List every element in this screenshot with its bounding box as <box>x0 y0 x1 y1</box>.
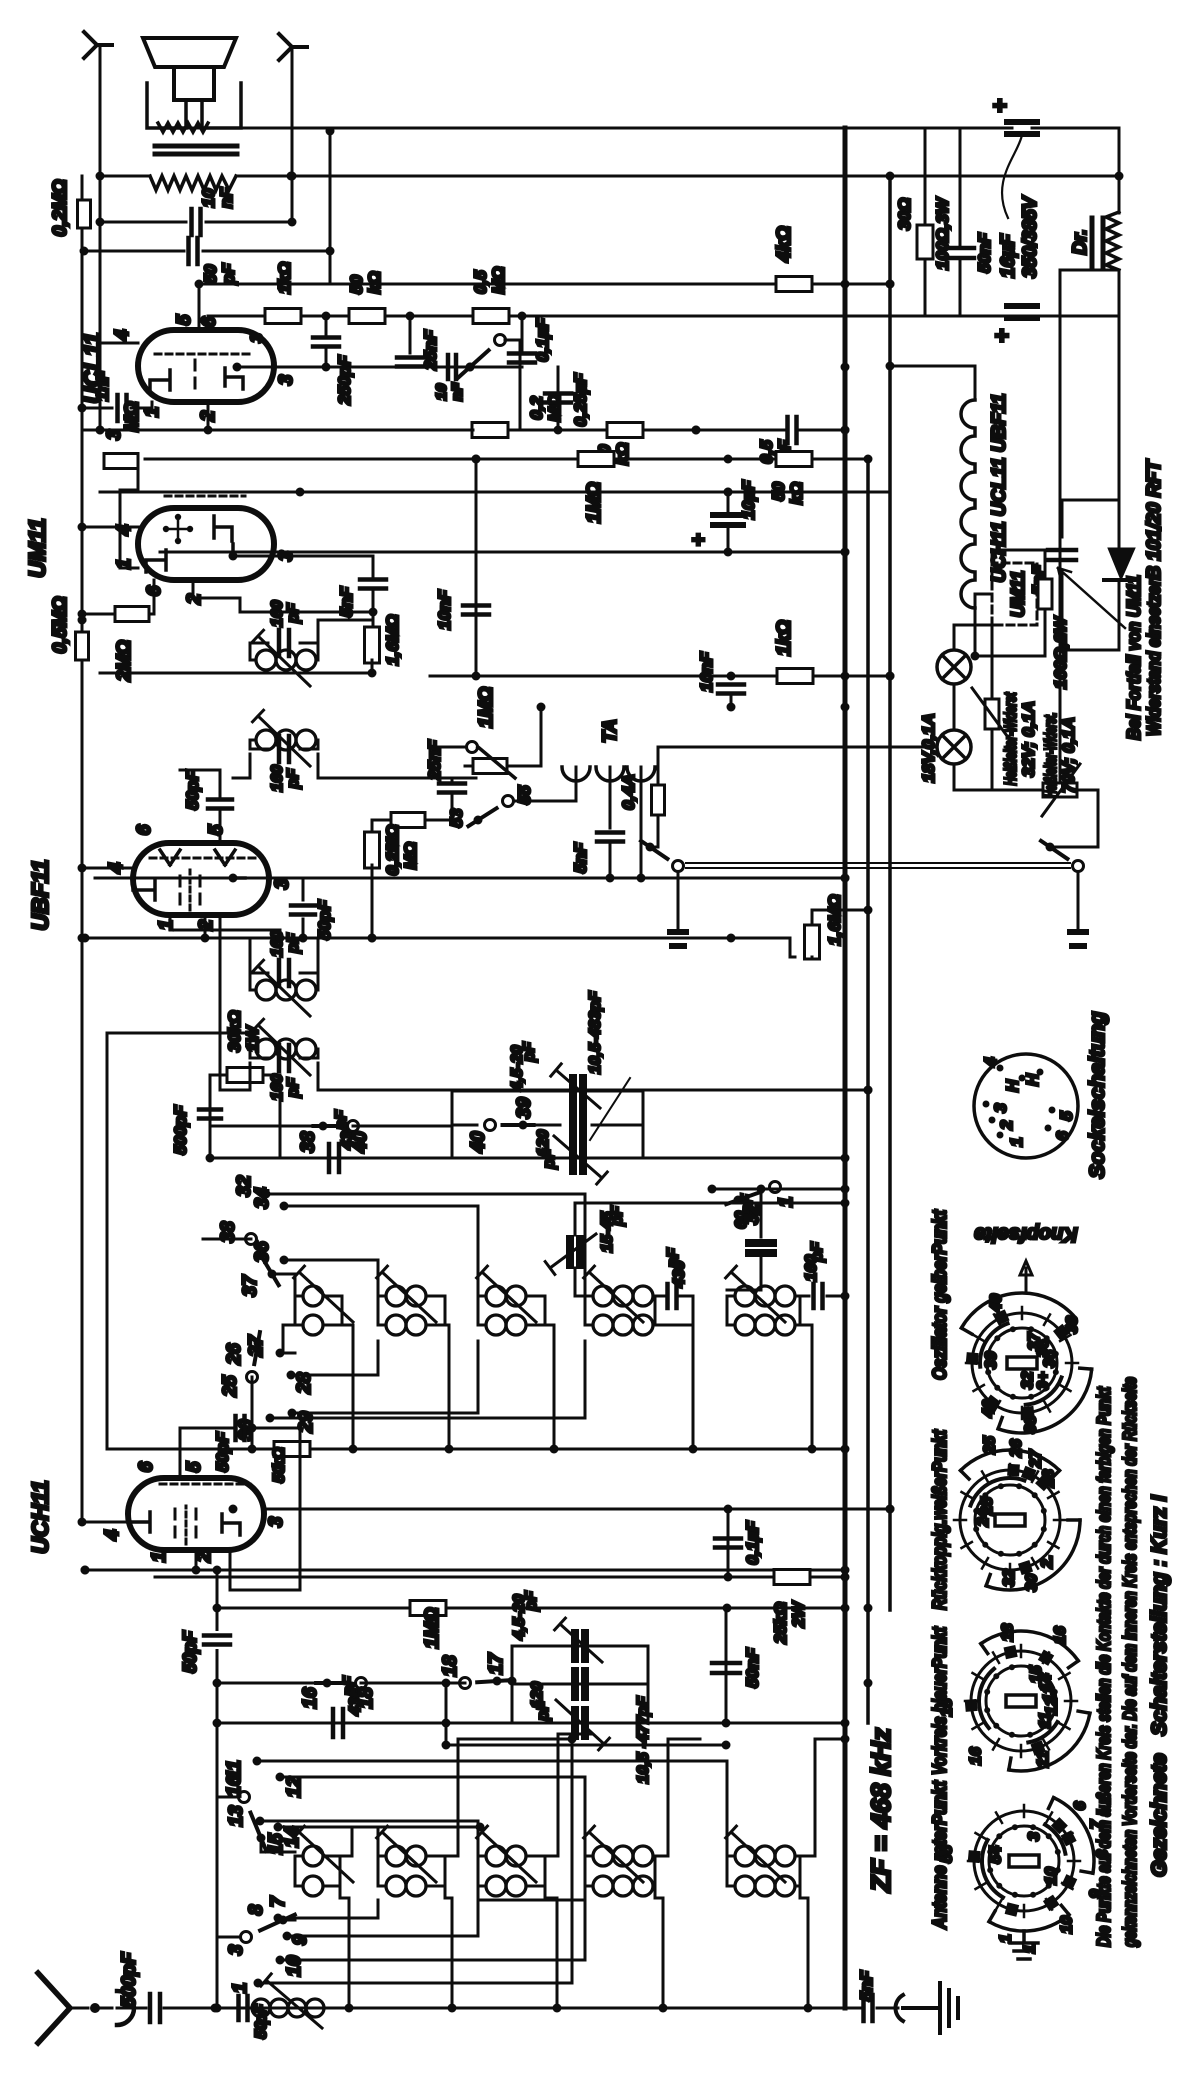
fuse 0,4A <box>652 785 665 815</box>
wire oscII gnd <box>445 1325 449 1449</box>
wire UCH screen row x503 <box>155 1576 845 1579</box>
wire UBF plate row x1142 <box>82 937 790 940</box>
svg-text:pF: pF <box>285 768 302 790</box>
trimmer arrow ant V <box>726 1826 785 1882</box>
svg-text:Bei Fortfall von UM11: Bei Fortfall von UM11 <box>1124 575 1144 740</box>
svg-text:3: 3 <box>1026 1832 1043 1841</box>
wire IFT1 pri bottom <box>318 938 476 976</box>
trimmer arrow osc IV <box>584 1266 643 1322</box>
svg-text:50pF: 50pF <box>183 770 202 810</box>
capacitor 10nF det <box>727 672 736 681</box>
speaker <box>143 38 236 67</box>
switch 3-8 <box>279 1916 288 1925</box>
earth jack <box>895 1995 903 2021</box>
wire 50pF row <box>84 250 184 253</box>
svg-text:8: 8 <box>246 1904 267 1915</box>
svg-text:24: 24 <box>975 1509 992 1528</box>
wire c7 <box>278 1900 378 1918</box>
transformer osc I box <box>295 1296 342 1325</box>
svg-text:0,2: 0,2 <box>527 396 546 420</box>
svg-text:18: 18 <box>999 1624 1016 1642</box>
variable capacitor 10,5-477pF <box>575 1710 585 1736</box>
capacitor 120pF input <box>575 1671 585 1697</box>
transformer osc I secondary <box>295 1324 303 1327</box>
wire 17 to padder <box>497 1680 512 1683</box>
wire 55 to TA <box>514 767 576 801</box>
svg-text:50nF: 50nF <box>743 1648 762 1688</box>
wire antV pri out <box>800 1739 845 1856</box>
svg-text:1MΩ: 1MΩ <box>584 482 605 523</box>
wire osc padder row <box>210 1157 845 1160</box>
wire rect output <box>1118 580 1121 608</box>
capacitor 160pF I sec <box>250 1049 318 1058</box>
wire 16/18 row <box>217 1682 327 1685</box>
svg-text:2MΩ: 2MΩ <box>114 640 135 682</box>
transformer ant V box <box>727 1856 800 1886</box>
wire grid return bus <box>81 176 84 1522</box>
trimmer arrow osc II <box>377 1266 436 1322</box>
svg-text:UBF11: UBF11 <box>27 859 53 930</box>
choke Dr winding <box>1106 212 1119 270</box>
wire 10nF row y476 <box>475 459 478 676</box>
svg-text:32: 32 <box>1020 1371 1037 1389</box>
wire heater left <box>975 594 992 656</box>
node 29 <box>288 1409 297 1418</box>
transformer ant V primary <box>727 1855 735 1858</box>
svg-text:H: H <box>1023 1073 1042 1086</box>
wire antIV gnd <box>655 1886 663 2008</box>
svg-text:40: 40 <box>988 1294 1005 1313</box>
antenna jack <box>90 2003 100 2013</box>
wire to choke <box>1032 128 1119 213</box>
svg-text:0,4A: 0,4A <box>619 774 638 810</box>
resistor 1kOhm <box>777 669 813 684</box>
rectifier B101/20 <box>1108 548 1135 580</box>
wire TA2 down <box>609 767 612 828</box>
svg-text:0,1µF: 0,1µF <box>533 317 552 361</box>
wire c13 <box>260 1821 478 1886</box>
transformer ant I box <box>295 1856 340 1886</box>
resistor 2MOhm <box>82 613 115 616</box>
capacitor 50pF speaker <box>189 238 198 264</box>
trimmer arrow ant III <box>477 1826 536 1882</box>
wire y100 to feedback row <box>99 343 102 430</box>
svg-text:5nF: 5nF <box>571 842 590 873</box>
IF transformer II primary <box>250 659 256 662</box>
svg-text:50pF: 50pF <box>213 1432 232 1472</box>
capacitor 5nF ant gnd <box>864 1995 873 2021</box>
svg-text:UCH11: UCH11 <box>27 1480 53 1554</box>
wire sec return riser <box>478 1899 585 1902</box>
wire lamps link <box>953 684 956 730</box>
wire antIV pri out <box>655 1739 700 1856</box>
wire osc padder loop <box>452 1091 643 1158</box>
svg-text:5nF: 5nF <box>857 1970 876 2001</box>
svg-text:30Ω: 30Ω <box>895 198 914 230</box>
output transformer voice box <box>147 83 241 128</box>
resistor 1MOhm AF <box>578 452 614 467</box>
svg-text:MΩ: MΩ <box>545 394 564 421</box>
wire c10 <box>280 1900 585 1960</box>
wire UM pin2 <box>193 580 373 612</box>
svg-text:25: 25 <box>220 1375 241 1398</box>
svg-text:TA: TA <box>600 719 621 743</box>
wire heater chain down <box>992 789 1043 792</box>
wire IFT1 sec bottom AVC <box>318 1063 868 1090</box>
svg-text:5: 5 <box>1057 1111 1076 1121</box>
svg-text:50pF: 50pF <box>315 900 334 940</box>
svg-text:13: 13 <box>226 1805 247 1827</box>
IF transformer I secondary <box>250 1048 256 1051</box>
svg-text:25nF: 25nF <box>425 740 444 781</box>
transformer ant III box <box>478 1856 545 1886</box>
svg-text:3: 3 <box>276 374 297 385</box>
UCL11 electrodes <box>150 370 170 392</box>
svg-text:7: 7 <box>268 1895 289 1907</box>
transformer osc IV secondary <box>585 1324 593 1327</box>
wire pot bottom <box>525 707 541 766</box>
capacitor 50nF osc <box>725 1608 728 1723</box>
trimmer arrow osc III <box>477 1266 536 1322</box>
switch 10nF feedback <box>448 355 456 379</box>
resistor 3MOhm <box>104 454 138 469</box>
capacitor 430pF osc pad <box>329 1144 339 1172</box>
switch 32-1 <box>734 1196 743 1205</box>
UM11 heater dashed box <box>992 563 1037 625</box>
svg-text:11: 11 <box>1037 1712 1054 1729</box>
svg-text:10: 10 <box>1058 1916 1075 1934</box>
svg-text:0,5: 0,5 <box>471 270 490 294</box>
TA jacks <box>562 767 590 781</box>
node 32 <box>262 1190 271 1199</box>
svg-text:pF: pF <box>535 1700 552 1722</box>
svg-text:3: 3 <box>991 1103 1010 1113</box>
capacitor 0,1uF UCL <box>509 354 535 363</box>
switch mains 2 <box>1046 843 1055 852</box>
trimmer arrow ant coil <box>261 1974 322 2028</box>
resistor 50kOhm osc grid <box>274 1442 310 1457</box>
capacitor 120pF osc <box>523 1124 560 1127</box>
svg-text:36: 36 <box>252 1241 273 1263</box>
trimmer arrow II pri <box>253 630 311 686</box>
wire B+ top row <box>246 127 1012 130</box>
capacitor 25nF UCL <box>409 316 412 353</box>
svg-text:MΩ: MΩ <box>401 842 420 869</box>
transformer ant V secondary <box>727 1885 735 1888</box>
capacitor 50pF UBF grid <box>208 800 232 809</box>
wire 430pF row <box>217 1722 845 1725</box>
node r2 <box>406 312 415 321</box>
svg-text:1kΩ: 1kΩ <box>774 620 795 656</box>
resistor 50kOhm het <box>776 452 812 467</box>
socket circle Sockelschaltung <box>974 1054 1078 1158</box>
capacitor 160pF I pri <box>250 973 318 990</box>
wire UCH pin4 <box>82 1521 128 1524</box>
svg-text:30: 30 <box>1023 1574 1040 1592</box>
wire 15-45 to bus <box>575 1202 845 1205</box>
transformer osc III primary <box>478 1295 486 1298</box>
wire c37 <box>272 1274 295 1296</box>
rotary outer arcs <box>1009 1713 1090 1771</box>
rotary slot <box>1006 1695 1036 1707</box>
svg-text:40: 40 <box>350 1131 371 1154</box>
svg-text:16: 16 <box>968 1747 985 1765</box>
wire antII gnd <box>445 1886 452 2008</box>
wire 0,2M fb <box>505 340 520 430</box>
capacitor 16uF b <box>1007 306 1037 318</box>
wire screen row x1764 <box>208 315 1119 318</box>
switch 38-37 osc <box>268 1270 277 1279</box>
svg-text:Heißleiter-Widerst: Heißleiter-Widerst <box>1001 692 1020 786</box>
wire choke to rect <box>1118 270 1121 556</box>
wire IFT2 pri bottom <box>318 620 373 646</box>
ground earth <box>903 1983 958 2033</box>
svg-text:0,5MΩ: 0,5MΩ <box>50 596 71 653</box>
wire UCL pin5 feedback <box>198 284 201 330</box>
capacitor 5nF rect <box>1062 500 1119 650</box>
wire IFT2 sec top to UM grid <box>233 754 250 778</box>
wire x1588 row <box>100 491 890 494</box>
resistor 30kOhm 1W <box>210 1075 227 1158</box>
svg-text:18: 18 <box>440 1655 461 1677</box>
resistor 1,6MOhm UBF <box>790 938 795 957</box>
rotary wafer circles <box>989 1826 1059 1896</box>
svg-text:+: + <box>989 329 1016 343</box>
svg-text:UM11: UM11 <box>24 518 50 578</box>
resistor 100Ohm 3W <box>924 128 927 316</box>
svg-text:gekennzeichneten Vorderseite d: gekennzeichneten Vorderseite dar. Die au… <box>1120 1377 1140 1948</box>
rotary outer arcs <box>998 1369 1092 1433</box>
transformer osc IV primary <box>585 1295 593 1298</box>
svg-text:10: 10 <box>1043 1867 1060 1885</box>
svg-text:26: 26 <box>224 1343 245 1366</box>
wire UCL plate <box>233 363 242 372</box>
wire to mains switch 2 <box>1050 790 1098 847</box>
wire AVC bus <box>866 459 870 1723</box>
svg-text:3+: 3+ <box>1035 1372 1052 1390</box>
transformer ant IV box <box>585 1856 655 1886</box>
capacitor 500pF <box>150 1994 160 2022</box>
svg-text:34: 34 <box>252 1187 273 1209</box>
capacitor 160pF II pri <box>250 643 318 660</box>
trimmer arrow osc I <box>294 1266 353 1322</box>
arrow Knopfseite <box>1020 1261 1032 1292</box>
svg-text:25kΩ: 25kΩ <box>771 1602 790 1645</box>
svg-text:18: 18 <box>356 1687 377 1709</box>
trimmer arrow I pri <box>253 960 311 1016</box>
wire antIII pri out <box>545 1734 592 1856</box>
svg-text:3: 3 <box>272 878 293 889</box>
transformer ant II secondary <box>378 1885 386 1888</box>
mains link <box>686 867 1070 869</box>
capacitor 60pF <box>760 1258 763 1290</box>
wire antenna lead 1b <box>117 2007 146 2010</box>
svg-text:500pF: 500pF <box>171 1105 190 1155</box>
svg-text:0,2MΩ: 0,2MΩ <box>383 824 402 875</box>
svg-text:Antenne roterPunkt: Antenne roterPunkt <box>930 1780 951 1929</box>
svg-text:5: 5 <box>174 314 195 325</box>
trimmer 4,5-20pF osc <box>573 1078 583 1104</box>
socket pins <box>997 1132 1004 1139</box>
wire IFT1 sec top to UBF grid <box>220 811 250 1090</box>
svg-text:1kΩ: 1kΩ <box>275 262 294 294</box>
wire 32-1 row <box>712 1188 845 1191</box>
wire lamp1 to heater <box>954 625 992 650</box>
wire bus end 5nF <box>845 2007 860 2010</box>
capacitor 1nF <box>118 395 127 421</box>
transformer ant III primary <box>478 1855 486 1858</box>
transformer ant III secondary <box>478 1885 486 1888</box>
capacitor 0,1uF UCH <box>727 1509 730 1577</box>
wire mains feed to rectifier <box>1059 270 1062 783</box>
wire c36 <box>284 1260 378 1296</box>
transformer ant IV secondary <box>585 1885 593 1888</box>
wire oscI gnd <box>342 1325 353 1449</box>
svg-text:2: 2 <box>997 1120 1016 1131</box>
svg-text:39: 39 <box>514 1097 535 1119</box>
node 9 <box>283 1932 292 1941</box>
wire c12 <box>280 1777 585 1886</box>
wire c11 <box>257 1761 727 1886</box>
resistor 25kOhm 2W <box>774 1570 810 1585</box>
svg-text:160: 160 <box>269 600 286 627</box>
transformer osc III box <box>478 1296 545 1325</box>
tube UBF11 <box>133 843 269 915</box>
svg-text:50nF: 50nF <box>975 233 994 273</box>
switch 18-17 <box>493 1677 502 1686</box>
svg-text:26: 26 <box>1008 1439 1025 1458</box>
wire feedback row x1650 <box>85 429 473 432</box>
resistor 0,2MOhm grid <box>78 200 91 228</box>
switch 53-55 <box>474 816 483 825</box>
Heissleiter 1 <box>985 699 999 729</box>
svg-text:1MΩ: 1MΩ <box>476 687 497 728</box>
capacitor 430pF input <box>333 1709 343 1737</box>
wire voice box to bus <box>147 127 246 130</box>
wire primary ends <box>100 175 150 178</box>
svg-text:38: 38 <box>298 1131 319 1153</box>
capacitor 50nF ps <box>959 128 962 316</box>
svg-text:32: 32 <box>234 1175 255 1197</box>
svg-text:16µF: 16µF <box>998 233 1019 278</box>
IF transformer II secondary <box>250 739 256 742</box>
wire c8 <box>283 1919 295 1922</box>
wire UBF pin4 grid return <box>82 867 133 870</box>
svg-text:1: 1 <box>149 1552 170 1563</box>
wire 18 down <box>361 1682 446 1685</box>
svg-text:pF: pF <box>219 263 238 285</box>
svg-text:pF: pF <box>809 1241 826 1263</box>
svg-text:MΩ: MΩ <box>489 267 508 294</box>
node 14 <box>274 1823 283 1832</box>
svg-text:+: + <box>686 533 711 546</box>
svg-text:37: 37 <box>240 1274 261 1297</box>
wire fuse to switch1 <box>650 815 658 847</box>
wire padder bottom row <box>446 1744 726 1747</box>
svg-text:UM11: UM11 <box>1008 571 1028 618</box>
wire UBF pin1 <box>170 915 280 938</box>
node 27 <box>276 1349 285 1358</box>
svg-text:5: 5 <box>206 824 227 835</box>
wire det row x1404 <box>430 675 890 678</box>
variable capacitor 10,5-483pF <box>573 1145 583 1171</box>
transformer ant IV primary <box>585 1855 593 1858</box>
capacitor 500pF osc grid <box>199 1110 221 1119</box>
wire 18b right <box>446 1682 465 1685</box>
rotary ticks <box>1016 1483 1022 1489</box>
wire c14 <box>278 1827 378 1872</box>
resistor 0,5MOhm grid <box>76 632 89 660</box>
svg-text:Dr.: Dr. <box>1070 229 1091 254</box>
resistor 50kOhm AF <box>607 423 643 438</box>
svg-text:Heißleiter-Widerst.: Heißleiter-Widerst. <box>1041 713 1060 798</box>
svg-text:40: 40 <box>468 1131 489 1154</box>
wire 0,16M to det <box>372 820 380 835</box>
wire antIII gnd <box>545 1886 557 2008</box>
wire c30 <box>270 1341 585 1418</box>
wire x1528 row <box>160 551 845 554</box>
svg-text:4: 4 <box>102 1529 123 1541</box>
svg-text:10nF: 10nF <box>697 652 716 692</box>
trimmer 15-45pF <box>575 1203 585 1296</box>
switch mains 1 <box>646 843 655 852</box>
switch 38-40 b <box>210 1125 323 1128</box>
svg-text:2.: 2. <box>1039 1555 1056 1569</box>
svg-text:16: 16 <box>1052 1626 1069 1644</box>
svg-text:pF: pF <box>609 1205 626 1227</box>
svg-text:H: H <box>1003 1079 1022 1092</box>
wire c9 <box>287 1900 478 1936</box>
switch 40-39 <box>519 1121 528 1130</box>
capacitor 0,5uF <box>788 417 797 443</box>
dial lamps <box>937 650 971 684</box>
capacitor 430pF osc <box>655 1295 665 1298</box>
trimmer arrow II sec <box>253 710 311 766</box>
resistor 1kOhm UCL <box>265 309 301 324</box>
wire 38 stem <box>203 1238 251 1241</box>
node 13 <box>256 1817 265 1826</box>
wire oscIII gnd <box>545 1325 554 1449</box>
svg-text:B 101/20 RFT: B 101/20 RFT <box>1144 459 1165 580</box>
capacitor 160pF osc <box>800 1295 809 1298</box>
rotary outer arcs <box>989 1915 1069 1931</box>
wire TA3 down <box>640 767 643 878</box>
wire UCL pin2 <box>207 402 210 430</box>
svg-text:Widerstand einsetzen: Widerstand einsetzen <box>1144 576 1164 736</box>
transformer ant I secondary <box>295 1885 303 1888</box>
svg-text:30kΩ: 30kΩ <box>225 1010 244 1052</box>
trimmer arrow ant I <box>294 1826 353 1882</box>
svg-text:0,1µF: 0,1µF <box>743 1520 762 1564</box>
wire UCL pin1 1nF <box>82 407 112 410</box>
UBF11 electrodes <box>133 880 155 900</box>
wire 50pF to 4k row <box>329 131 332 284</box>
transformer ant II box <box>378 1856 445 1886</box>
svg-text:pF: pF <box>285 1077 302 1099</box>
svg-text:kΩ: kΩ <box>613 443 632 466</box>
svg-text:3: 3 <box>247 333 266 343</box>
transformer osc V secondary <box>727 1324 735 1327</box>
mains plug pins <box>678 872 1078 932</box>
capacitor 50pF UBF plate <box>291 906 315 915</box>
trimmer arrow I sec <box>253 1019 311 1075</box>
trimmer 4,5-20pF input <box>575 1633 585 1659</box>
svg-text:25: 25 <box>982 1435 999 1455</box>
rotary wafer circles <box>987 1328 1057 1398</box>
wire UCH pin1 to 50pF riser <box>195 1550 198 1570</box>
volume pot 1MOhm <box>467 742 478 753</box>
wire IFT1 pri top to plate supply <box>85 938 250 976</box>
